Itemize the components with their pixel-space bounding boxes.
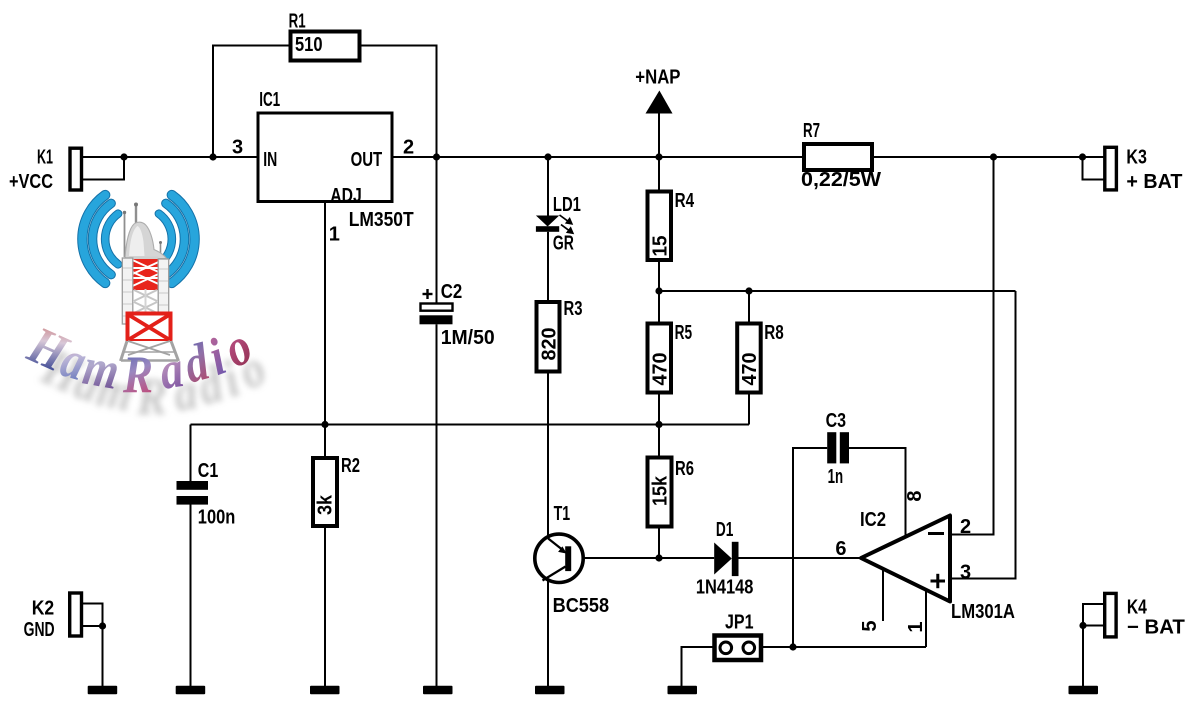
- svg-text:OUT: OUT: [351, 149, 383, 171]
- wires group: [82, 46, 1105, 688]
- svg-text:R3: R3: [564, 298, 583, 320]
- svg-text:LM301A: LM301A: [951, 601, 1015, 623]
- svg-text:C1: C1: [198, 460, 219, 482]
- resistor R4: [648, 192, 672, 261]
- svg-text:K4: K4: [1127, 597, 1148, 619]
- op-amp U IC2: [861, 516, 950, 602]
- logo wave arcs right: [159, 195, 195, 283]
- junction R5-R6 node: [655, 421, 662, 428]
- svg-text:C2: C2: [441, 281, 463, 303]
- svg-text:C3: C3: [826, 410, 847, 432]
- wire K1 loop stub: [82, 157, 125, 180]
- wire R8 bottom: [748, 393, 750, 425]
- junction ADJ / R2: [321, 421, 328, 428]
- ground K2: [88, 686, 118, 694]
- wire node291 horizontal: [659, 290, 1016, 292]
- resistor R5: [648, 324, 672, 393]
- resistor R7: [804, 144, 872, 170]
- wire pin3 column from node291: [950, 291, 1016, 579]
- svg-text:1M/50: 1M/50: [441, 327, 495, 349]
- wire main rail IC1 OUT to R7: [392, 156, 804, 158]
- svg-text:R7: R7: [803, 120, 820, 142]
- svg-text:R: R: [122, 345, 153, 404]
- wire adj net horizontal: [191, 424, 750, 426]
- svg-text:2: 2: [960, 516, 971, 538]
- svg-text:T1: T1: [554, 503, 571, 525]
- svg-text:ADJ: ADJ: [330, 185, 362, 207]
- jumper JP1: [715, 636, 762, 661]
- ground T1: [535, 686, 565, 694]
- svg-text:IC2: IC2: [860, 509, 886, 531]
- wire K2 stubs: [82, 604, 103, 688]
- wire main rail K1 to IC1 IN: [82, 156, 259, 158]
- resistor R8: [737, 324, 761, 393]
- svg-text:K1: K1: [37, 147, 53, 169]
- resistor R3: [537, 302, 560, 372]
- svg-text:GR: GR: [553, 233, 574, 255]
- svg-text:510: 510: [295, 34, 323, 56]
- wire C3 right to pin8: [849, 448, 906, 538]
- svg-text:820: 820: [538, 328, 560, 361]
- junction LED branch / rail: [544, 153, 551, 160]
- wire C1 bottom to ground: [190, 505, 192, 688]
- wire NAP symbol down: [658, 113, 660, 192]
- ground C2: [423, 686, 453, 694]
- IC1 regulator box: [258, 113, 392, 202]
- svg-text:K3: K3: [1126, 147, 1147, 169]
- connector pad K4: [1105, 593, 1116, 637]
- wire C2 top: [436, 157, 438, 304]
- capacitor C3: [827, 432, 849, 463]
- junction K2 stub: [99, 622, 106, 629]
- svg-text:R2: R2: [341, 455, 360, 477]
- logo tower legs: [121, 341, 179, 361]
- wire LED column top: [547, 157, 549, 216]
- svg-text:K2: K2: [32, 598, 55, 620]
- wire R2 top: [324, 425, 326, 459]
- svg-text:100n: 100n: [198, 507, 236, 529]
- plus C2: [423, 289, 433, 299]
- svg-text:BC558: BC558: [553, 595, 610, 617]
- wire IC1 ADJ down: [324, 202, 326, 425]
- svg-text:R5: R5: [675, 322, 693, 344]
- wire R1 right: [360, 46, 437, 158]
- capacitor C2: [421, 304, 453, 311]
- svg-text:R1: R1: [289, 11, 306, 33]
- LED LD1: [536, 216, 559, 232]
- svg-text:JP1: JP1: [725, 612, 754, 634]
- svg-text:8: 8: [904, 490, 926, 501]
- wire K4 stubs: [1083, 604, 1105, 687]
- wire T1 collector to ground: [547, 581, 549, 687]
- svg-text:− BAT: − BAT: [1127, 617, 1185, 639]
- ground R2: [310, 686, 340, 694]
- svg-text:0,22/5W: 0,22/5W: [801, 169, 881, 191]
- logo tower mid lattice: [134, 289, 157, 313]
- op-amp plus sign: [931, 574, 946, 588]
- wire C3 left: [793, 448, 827, 647]
- svg-text:3: 3: [960, 562, 971, 584]
- svg-text:LD1: LD1: [553, 194, 581, 216]
- svg-text:LM350T: LM350T: [349, 209, 414, 231]
- wire T1 base to D1: [570, 557, 714, 559]
- svg-text:IC1: IC1: [259, 89, 280, 111]
- svg-text:R4: R4: [675, 190, 695, 212]
- connector pad K2: [70, 593, 82, 636]
- wire LED to R3: [547, 232, 549, 302]
- wire JP1 left to ground: [682, 647, 715, 687]
- op-amp minus sign: [928, 532, 944, 535]
- svg-text:D1: D1: [716, 519, 734, 541]
- svg-text:15k: 15k: [649, 475, 671, 506]
- svg-text:470: 470: [739, 353, 761, 386]
- junction +NAP / R4 / rail: [655, 153, 662, 160]
- wire K3 loop stub: [1083, 157, 1105, 180]
- svg-text:470: 470: [649, 353, 671, 386]
- svg-text:15: 15: [649, 236, 671, 257]
- wire pin5 stub: [882, 568, 884, 621]
- connector pad K3: [1105, 147, 1117, 190]
- wire C2 bottom to ground: [436, 324, 438, 687]
- wire pin1 down: [925, 590, 927, 647]
- wire main rail R7 to K3: [872, 156, 1105, 158]
- wire bottom net JP1 to pin1: [761, 646, 926, 648]
- wire pin2 column from rail: [950, 157, 994, 535]
- capacitor C1: [177, 481, 209, 505]
- svg-text:+NAP: +NAP: [635, 67, 680, 89]
- diode D1: [714, 542, 738, 576]
- logo tower dome: [125, 222, 167, 258]
- power symbol +NAP: [646, 91, 673, 114]
- svg-text:+ BAT: + BAT: [1126, 171, 1182, 193]
- logo text HamRadio: [19, 314, 260, 404]
- svg-text:GND: GND: [24, 619, 55, 641]
- wire C1 top: [190, 425, 192, 482]
- junction pin2 branch / rail: [990, 153, 997, 160]
- logo tower red upper lattice: [133, 259, 159, 290]
- logo tower lower red block: [128, 314, 171, 342]
- transistor T1: [535, 534, 583, 582]
- ground C1: [176, 686, 206, 694]
- svg-text:1: 1: [329, 224, 340, 246]
- junction R8 top node: [745, 287, 752, 294]
- svg-text:1n: 1n: [828, 466, 844, 488]
- wire R4 to R5: [658, 260, 660, 324]
- wire R1 left: [213, 46, 291, 158]
- junction C3 / JP1 net: [789, 643, 796, 650]
- svg-text:2: 2: [403, 137, 414, 159]
- wire R6 bottom: [658, 527, 660, 559]
- resistor R2: [313, 458, 337, 526]
- svg-text:3: 3: [232, 137, 243, 159]
- junction K1 rail: [120, 153, 127, 160]
- junction R6 / base wire: [655, 554, 662, 561]
- wire D1 to opamp pin6: [739, 557, 862, 559]
- HamRadio logo: [19, 195, 274, 426]
- junction K4 stub: [1079, 622, 1086, 629]
- junction R1 left / rail: [209, 153, 216, 160]
- logo wave arcs left: [82, 195, 118, 283]
- resistor R6: [648, 458, 672, 527]
- wire R2 bottom to ground: [324, 526, 326, 687]
- ground JP1: [668, 686, 698, 694]
- svg-text:3k: 3k: [315, 494, 337, 515]
- junction R4-R5 node: [655, 287, 662, 294]
- wire R6 top: [658, 425, 660, 458]
- logo tower collar: [130, 257, 159, 262]
- svg-text:1N4148: 1N4148: [696, 577, 754, 599]
- svg-text:R8: R8: [764, 322, 784, 344]
- logo tower masts: [125, 205, 161, 260]
- LED LD1 light arrows: [560, 215, 573, 233]
- resistor R1: [291, 32, 360, 61]
- ground K4: [1069, 686, 1099, 694]
- svg-text:+VCC: +VCC: [9, 171, 53, 193]
- wire R5 bottom: [658, 393, 660, 425]
- junction R1 right / C2 / rail: [433, 153, 440, 160]
- wire R8 top: [748, 291, 750, 324]
- svg-text:R6: R6: [675, 458, 694, 480]
- wire R3 to T1 emitter: [547, 372, 549, 537]
- svg-text:5: 5: [859, 620, 881, 631]
- svg-text:1: 1: [905, 621, 927, 632]
- junction K3 / rail: [1079, 153, 1086, 160]
- connector pad K1: [70, 148, 82, 190]
- svg-text:6: 6: [835, 538, 846, 560]
- logo tower side panels: [122, 258, 133, 324]
- logo text shadow: [33, 336, 274, 426]
- svg-text:IN: IN: [263, 149, 277, 171]
